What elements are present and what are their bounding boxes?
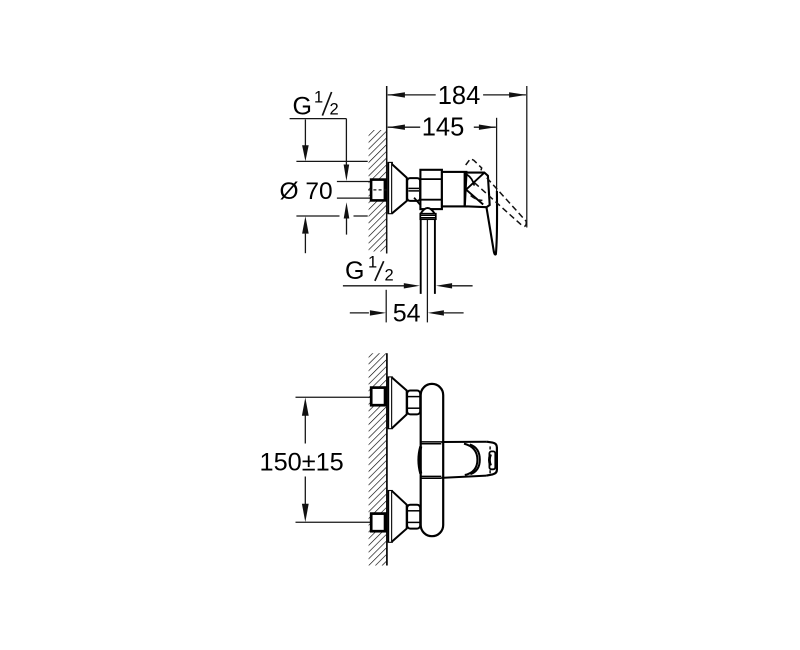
wall fitting square (top view) — [368, 179, 387, 202]
wall face line (top view) — [386, 86, 388, 254]
Ø70 extension lines — [296, 160, 367, 162]
svg-text:145: 145 — [422, 114, 465, 142]
handle solid cap (top view) — [465, 173, 490, 208]
pipe centre line / 54 extension — [426, 220, 428, 322]
extension line 184 right — [526, 86, 528, 228]
collar lines on capsule — [421, 442, 442, 478]
svg-text:Ø 70: Ø 70 — [280, 178, 333, 205]
G1/2 lower dimension arrows at pipe — [343, 283, 473, 288]
wire 54-extension of wall face below text — [385, 290, 387, 323]
outlet collar — [420, 214, 436, 220]
cartridge housing (top view) — [442, 172, 467, 207]
lower hex nut (bottom view) — [407, 505, 420, 529]
svg-text:184: 184 — [438, 82, 481, 110]
shower pipe — [421, 219, 435, 322]
svg-text:1: 1 — [368, 254, 377, 272]
valve body block (top view) — [420, 170, 442, 209]
dimension 184 — [388, 92, 527, 97]
escutcheon cone (top view) — [392, 164, 407, 213]
upper escutcheon cone (bottom view) — [392, 378, 407, 428]
outlet dome — [421, 208, 435, 213]
handle dome arcs — [464, 444, 477, 475]
lower escutcheon flange (bottom view) — [388, 491, 392, 543]
svg-text:54: 54 — [393, 300, 421, 328]
dimension 150±15 — [260, 398, 344, 523]
Ø70 up arrow — [302, 216, 309, 253]
faucet body capsule (bottom view) — [421, 384, 444, 536]
lower escutcheon cone (bottom view) — [392, 491, 407, 541]
hex nut (top view) — [407, 178, 420, 201]
upper wall fitting square (bottom view) — [371, 388, 385, 406]
handle neck (bottom view) — [441, 442, 486, 478]
escutcheon flange (top view) — [388, 162, 392, 213]
svg-text:G: G — [345, 257, 364, 285]
lower wall fitting square (bottom view) — [371, 514, 385, 532]
dimension 54 — [350, 300, 464, 328]
extension line 145 right — [496, 118, 498, 229]
outlet chamfer — [414, 198, 421, 206]
svg-text:2: 2 — [385, 266, 394, 284]
G1/2 lower-leader up arrow (to fitting bottom) — [344, 202, 350, 234]
label G 1/2 (lower) — [345, 254, 394, 285]
svg-text:2: 2 — [330, 100, 339, 118]
wall hatch (top view) — [369, 130, 387, 252]
wall face line (bottom view) — [386, 353, 388, 565]
dimension 150±15 extension lines — [296, 396, 373, 398]
label G 1/2 (upper) — [290, 89, 347, 121]
upper escutcheon flange (bottom view) — [388, 377, 392, 429]
handle end cap (bottom view) — [487, 442, 497, 476]
svg-text:G: G — [293, 92, 312, 120]
fitting edge extension lines — [337, 181, 371, 183]
end cap recess — [489, 446, 495, 473]
handle lever solid — [487, 191, 497, 255]
handle dashed (raised position) — [466, 159, 527, 227]
leader arrow G1/2 upper (down to fitting top) — [344, 119, 350, 181]
svg-text:1: 1 — [314, 89, 323, 107]
dimension 145 — [388, 125, 496, 130]
svg-text:150±15: 150±15 — [260, 448, 344, 476]
wall hatch (bottom view) — [369, 353, 387, 565]
collar crescent — [419, 446, 421, 473]
Ø70 down arrow — [302, 120, 309, 162]
upper hex nut (bottom view) — [407, 391, 420, 415]
